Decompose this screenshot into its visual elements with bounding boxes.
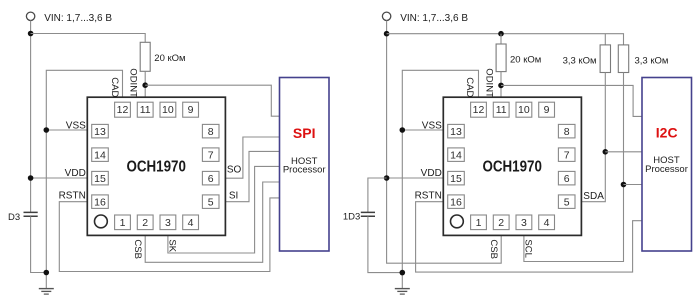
wire ODINT to host (right) <box>501 85 642 116</box>
junction VSS (right) <box>400 127 406 133</box>
wire rail tap to R3 <box>604 34 606 45</box>
wire VDD (right) <box>387 177 444 179</box>
pin 9 <box>183 102 199 117</box>
wire rail to R2 <box>500 34 502 44</box>
svg-text:VDD: VDD <box>65 168 86 179</box>
svg-text:SDA: SDA <box>583 191 604 202</box>
wire R4 to SCL pin 3 <box>524 73 624 262</box>
svg-text:SK: SK <box>166 239 177 252</box>
svg-text:ODINT: ODINT <box>484 68 495 98</box>
junction VIN top (left) <box>28 31 34 37</box>
svg-text:6: 6 <box>564 173 570 185</box>
pin 1 indicator circle <box>95 215 108 228</box>
pin 6 <box>202 171 219 185</box>
svg-text:10: 10 <box>162 104 174 116</box>
pin 11 <box>137 102 153 117</box>
svg-text:5: 5 <box>208 196 214 208</box>
svg-text:12: 12 <box>473 104 485 116</box>
junction ODINT (left) <box>142 82 148 88</box>
pin 13 <box>448 124 465 137</box>
capacitor 1D3 <box>361 212 375 216</box>
wire CSB pin 2 to host (left) <box>145 182 279 262</box>
wire SO pin 6 to host <box>225 137 279 178</box>
svg-text:3,3 кОм: 3,3 кОм <box>635 56 669 67</box>
pin 6 <box>558 171 575 185</box>
svg-text:14: 14 <box>450 149 462 161</box>
IC U2 OCH1970 body <box>443 97 581 235</box>
junction top rail at R2 (right) <box>498 31 504 37</box>
ground (left) <box>39 288 54 290</box>
pin 8 <box>558 124 575 137</box>
svg-text:10: 10 <box>518 104 530 116</box>
pin 15 <box>448 171 465 185</box>
svg-text:15: 15 <box>450 173 462 185</box>
svg-text:OCH1970: OCH1970 <box>126 159 186 176</box>
pin 4 <box>183 215 199 230</box>
wire R3 to SDA pin 5 <box>581 73 605 202</box>
pin 11 <box>493 102 509 117</box>
power symbol VIN (right) <box>382 12 390 20</box>
svg-text:4: 4 <box>188 217 194 229</box>
pin 10 <box>516 102 532 117</box>
wire VDD (left) <box>31 177 88 179</box>
svg-text:1: 1 <box>476 217 482 229</box>
svg-text:Processor: Processor <box>283 165 326 176</box>
svg-text:CSB: CSB <box>488 239 499 259</box>
pin 3 <box>516 215 532 230</box>
wire cap to ground (right) <box>368 216 402 272</box>
svg-text:9: 9 <box>188 104 194 116</box>
resistor R2 20 kOhm pull-up (right) <box>496 44 506 72</box>
pin 2 <box>493 215 509 230</box>
wire cap branch (right) <box>368 178 387 212</box>
svg-text:CAD: CAD <box>109 77 120 97</box>
junction ODINT (right) <box>498 83 504 89</box>
pin 1 <box>471 215 487 230</box>
pin 16 <box>92 195 109 209</box>
svg-text:12: 12 <box>117 104 129 116</box>
svg-text:11: 11 <box>496 104 507 116</box>
svg-text:CSB: CSB <box>132 239 143 259</box>
pin 5 <box>202 195 219 209</box>
svg-text:8: 8 <box>208 126 214 138</box>
pin 5 <box>558 195 575 209</box>
junction VDD (left) <box>28 175 34 181</box>
svg-text:VSS: VSS <box>66 121 86 132</box>
svg-text:11: 11 <box>140 104 151 116</box>
wire CAD loop to ground (right) <box>402 70 478 288</box>
svg-text:I2C: I2C <box>656 124 678 140</box>
junction SDA <box>603 149 609 155</box>
junction SCL <box>621 182 627 188</box>
wire VIN top rail (right) <box>387 34 624 45</box>
pin 2 <box>137 215 153 230</box>
wire VIN vertical upper (left) <box>30 21 32 213</box>
pin 1 indicator circle <box>451 215 464 228</box>
junction VSS (left) <box>44 127 50 133</box>
svg-text:1D3: 1D3 <box>343 211 360 222</box>
svg-text:16: 16 <box>450 196 462 208</box>
ground (right) <box>395 288 410 290</box>
svg-text:2: 2 <box>498 217 504 229</box>
pin 9 <box>539 102 555 117</box>
wire CAD loop to ground (left) <box>46 70 122 288</box>
resistor R4 3.3 kOhm SCL pull-up <box>618 45 628 73</box>
svg-text:20 кОм: 20 кОм <box>154 53 185 64</box>
wire SK pin 3 to host <box>168 166 280 253</box>
pin 8 <box>202 124 219 137</box>
wire ODINT to host (left) <box>145 85 279 116</box>
svg-text:OCH1970: OCH1970 <box>482 159 542 176</box>
svg-text:20 кОм: 20 кОм <box>510 54 541 65</box>
host processor box SPI <box>280 78 330 252</box>
svg-text:Processor: Processor <box>645 164 688 175</box>
svg-text:8: 8 <box>564 126 570 138</box>
svg-text:SPI: SPI <box>293 125 316 141</box>
svg-text:SCL: SCL <box>523 239 534 257</box>
wire VIN top rail to R1 (left) <box>31 34 146 43</box>
pin 3 <box>160 215 176 230</box>
svg-text:13: 13 <box>94 126 106 138</box>
svg-text:D3: D3 <box>8 212 20 223</box>
wire SCL stub to host <box>624 184 643 186</box>
pin 16 <box>448 195 465 209</box>
svg-text:13: 13 <box>450 126 462 138</box>
svg-text:ODINT: ODINT <box>128 68 139 98</box>
pin 1 <box>115 215 131 230</box>
junction ground (left) <box>44 270 50 276</box>
svg-text:5: 5 <box>564 196 570 208</box>
wire R1 bottom to pin 11 <box>144 71 146 97</box>
svg-text:16: 16 <box>94 196 106 208</box>
svg-text:RSTN: RSTN <box>415 190 442 201</box>
wire VSS (right) <box>402 129 443 131</box>
wire SI pin 5 to host <box>225 151 279 201</box>
pin 14 <box>92 148 109 162</box>
pin 15 <box>92 171 109 185</box>
svg-text:3: 3 <box>521 217 527 229</box>
IC U1 OCH1970 body <box>87 97 225 235</box>
pin 4 <box>539 215 555 230</box>
svg-text:VIN: 1,7...3,6 В: VIN: 1,7...3,6 В <box>400 13 468 24</box>
junction ground (right) <box>400 270 406 276</box>
svg-text:SI: SI <box>229 191 238 202</box>
svg-text:15: 15 <box>94 173 106 185</box>
svg-text:VIN: 1,7...3,6 В: VIN: 1,7...3,6 В <box>44 13 112 24</box>
wire VIN vertical lower to ground (left) <box>31 216 47 272</box>
wire VIN vertical to CSB tie (right) <box>387 21 502 264</box>
resistor R3 3.3 kOhm SDA pull-up <box>600 45 610 73</box>
svg-text:6: 6 <box>208 173 214 185</box>
pin 12 <box>115 102 131 117</box>
wire SDA stub to host <box>605 151 642 153</box>
svg-text:2: 2 <box>142 217 148 229</box>
svg-text:SO: SO <box>227 164 242 175</box>
svg-text:VDD: VDD <box>421 168 442 179</box>
junction VDD (right) <box>384 175 390 181</box>
svg-text:4: 4 <box>544 217 550 229</box>
svg-text:9: 9 <box>544 104 550 116</box>
junction VIN top (right) <box>384 31 390 37</box>
svg-text:3,3 кОм: 3,3 кОм <box>563 56 597 67</box>
wire RSTN to host (right) <box>416 202 642 272</box>
pin 14 <box>448 148 465 162</box>
svg-text:3: 3 <box>165 217 171 229</box>
pin 10 <box>160 102 176 117</box>
svg-text:7: 7 <box>208 149 214 161</box>
wire R2 bottom to pin 11 (right) <box>500 72 502 98</box>
power symbol VIN (left) <box>26 12 34 20</box>
wire RSTN to host (left) <box>59 198 279 272</box>
host processor box I2C <box>642 78 692 252</box>
svg-text:1: 1 <box>120 217 126 229</box>
svg-text:VSS: VSS <box>422 121 442 132</box>
wire VSS (left) <box>46 129 87 131</box>
svg-text:7: 7 <box>564 149 570 161</box>
svg-text:14: 14 <box>94 149 106 161</box>
pin 7 <box>558 148 575 162</box>
svg-text:RSTN: RSTN <box>59 190 86 201</box>
pin 13 <box>92 124 109 137</box>
resistor R1 20 kOhm pull-up <box>140 42 150 71</box>
pin 7 <box>202 148 219 162</box>
capacitor D3 <box>24 212 38 216</box>
pin 12 <box>471 102 487 117</box>
svg-text:CAD: CAD <box>464 77 475 97</box>
